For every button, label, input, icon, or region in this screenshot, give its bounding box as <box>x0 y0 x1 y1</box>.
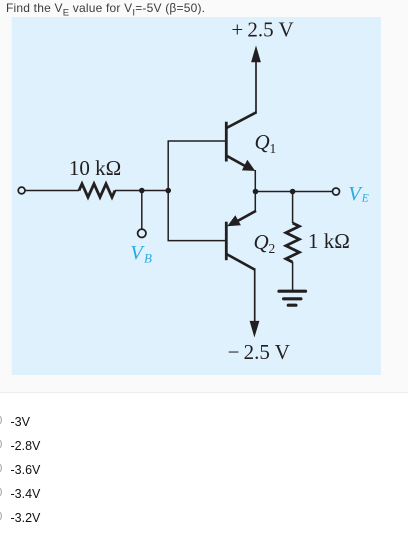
svg-text:B: B <box>144 251 152 266</box>
svg-text:Q: Q <box>254 230 269 254</box>
wire input to resistor R1 <box>25 190 79 192</box>
terminal VE <box>333 188 340 195</box>
label Q2 <box>254 230 276 256</box>
+2.5 V supply arrow <box>251 46 261 114</box>
svg-text:2: 2 <box>269 241 276 256</box>
wire node E to VE terminal <box>256 191 333 193</box>
wire Q1 emitter to node E <box>254 170 256 192</box>
node VB junction <box>139 188 145 194</box>
svg-text:Q: Q <box>255 130 270 154</box>
svg-text:− 2.5 V: − 2.5 V <box>228 340 290 364</box>
label VE <box>348 183 369 205</box>
wire base bus to Q1 base <box>168 140 226 142</box>
input terminal <box>18 187 25 194</box>
circuit background panel <box>12 17 381 375</box>
+2.5 V supply label <box>231 18 293 42</box>
svg-text:1 kΩ: 1 kΩ <box>308 229 350 253</box>
terminal VB <box>138 229 146 237</box>
label Q1 <box>255 130 277 156</box>
svg-text:+ 2.5 V: + 2.5 V <box>231 18 293 42</box>
node E dot <box>253 189 259 195</box>
wire Q2 collector down <box>254 269 256 322</box>
wire base bus vertical <box>167 141 169 241</box>
resistor R2 1 kOhm <box>286 223 299 262</box>
transistor Q1 (npn) <box>226 112 257 171</box>
wire base bus to Q2 base <box>168 240 226 242</box>
wire node E to Q2 emitter <box>254 192 256 213</box>
wire VB stub <box>141 191 143 229</box>
svg-text:1: 1 <box>270 141 277 156</box>
svg-text:10 kΩ: 10 kΩ <box>69 156 121 180</box>
ground <box>279 291 306 305</box>
wire node to resistor R2 <box>292 192 294 224</box>
svg-text:E: E <box>361 193 369 205</box>
wire resistor R2 to ground <box>292 262 294 291</box>
-2.5 V supply arrow <box>250 321 260 338</box>
node base bus junction <box>165 188 171 194</box>
transistor Q2 (pnp) <box>226 211 257 270</box>
label VB <box>130 242 152 266</box>
node R2 junction <box>290 189 296 195</box>
wire resistor to base rail <box>115 190 171 192</box>
resistor R1 10 kOhm <box>79 184 115 197</box>
